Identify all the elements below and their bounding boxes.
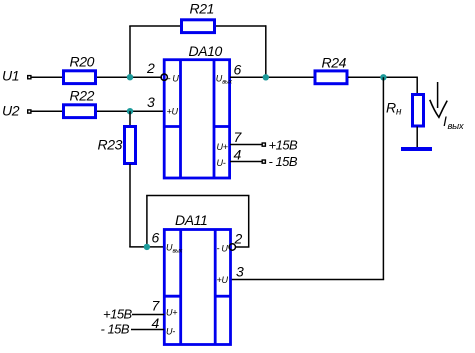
svg-text:I: I <box>443 113 447 129</box>
svg-text:U-: U- <box>217 158 226 168</box>
wire Rn to ground <box>416 127 418 148</box>
svg-text:R21: R21 <box>190 1 214 17</box>
wire DA10 pin 4 to -15V terminal <box>230 161 262 163</box>
svg-text:- U: - U <box>217 244 229 254</box>
svg-text:DA10: DA10 <box>189 43 223 59</box>
resistor R24 <box>315 55 347 84</box>
Iout label <box>443 113 465 132</box>
node junction output to load <box>380 74 386 80</box>
svg-text:+15В: +15В <box>103 307 133 322</box>
inversion circle DA10 pin 2 <box>161 74 167 80</box>
svg-text:6: 6 <box>152 230 160 246</box>
svg-text:U+: U+ <box>166 308 177 318</box>
svg-text:- 15В: - 15В <box>101 322 130 337</box>
wire corner down to Rn <box>416 77 418 94</box>
svg-text:R24: R24 <box>322 55 347 71</box>
svg-text:R23: R23 <box>98 137 123 153</box>
svg-text:- U: - U <box>168 74 180 84</box>
Uout label DA11 <box>166 243 183 255</box>
svg-text:вых: вых <box>222 79 233 85</box>
input terminal U1 <box>2 68 31 84</box>
input terminal U2 <box>2 103 31 119</box>
svg-text:6: 6 <box>234 62 242 78</box>
load resistor Rn <box>386 95 424 127</box>
resistor R21 <box>182 1 215 33</box>
resistor R22 <box>64 88 96 118</box>
svg-text:DA11: DA11 <box>175 212 207 228</box>
svg-text:R22: R22 <box>70 88 95 104</box>
resistor R23 <box>98 127 136 164</box>
svg-text:3: 3 <box>236 264 244 280</box>
wire R23 down to DA11 output node <box>129 164 164 247</box>
wire U1 terminal to R20 <box>32 76 64 78</box>
svg-text:+U: +U <box>217 275 229 285</box>
svg-text:7: 7 <box>152 298 161 314</box>
wire U2 terminal to R22 <box>32 110 64 112</box>
svg-text:7: 7 <box>234 129 243 145</box>
op-amp U2 block DA11 <box>164 212 230 345</box>
wire feedback R21 branch (node A up and over) <box>129 26 181 77</box>
svg-text:н: н <box>396 107 402 118</box>
node junction at DA10 pin 3 input <box>127 108 133 114</box>
terminal square -15V DA10 <box>262 160 265 163</box>
wire DA10 pin 7 to +15V terminal <box>230 144 262 146</box>
svg-text:U2: U2 <box>2 103 20 119</box>
svg-text:4: 4 <box>152 315 160 331</box>
svg-text:R20: R20 <box>70 54 95 70</box>
svg-text:- 15В: - 15В <box>269 154 298 169</box>
svg-text:4: 4 <box>234 147 242 163</box>
svg-text:2: 2 <box>146 60 155 76</box>
node junction DA10 output / R21 feedback <box>263 74 269 80</box>
svg-text:3: 3 <box>147 94 155 110</box>
terminal square +15V DA10 <box>262 143 265 146</box>
svg-text:вых: вых <box>173 249 184 255</box>
node junction at DA10 pin 2 input <box>127 74 133 80</box>
feedback loop wire DA11 output to pin 2 <box>146 196 249 248</box>
wire DA10 output to R24 <box>230 76 315 78</box>
ground <box>401 147 432 151</box>
svg-text:U1: U1 <box>2 68 19 84</box>
wire R21 to DA10 output node <box>216 25 266 77</box>
wire R22 to DA10 pin 3 <box>97 110 165 112</box>
svg-text:+15В: +15В <box>269 138 299 153</box>
wire +15V to DA11 pin 7 <box>132 314 164 316</box>
svg-text:U+: U+ <box>217 142 228 152</box>
wire node B down to R23 <box>129 111 131 126</box>
output current arrow Iout <box>430 82 447 117</box>
svg-text:вых: вых <box>448 121 465 132</box>
svg-text:U-: U- <box>166 327 175 337</box>
wire R20 to DA10 pin 2 <box>97 76 162 78</box>
node junction R23 / DA11 feedback <box>144 244 150 250</box>
svg-text:+U: +U <box>167 107 179 117</box>
Uout label DA10 <box>216 73 233 85</box>
svg-text:2: 2 <box>234 231 243 247</box>
inversion circle DA11 pin 2 <box>229 244 235 250</box>
op-amp U1 block DA10 <box>164 43 229 178</box>
wire output node down to DA11 pin 3 <box>231 77 384 279</box>
wire -15V to DA11 pin 4 <box>131 329 164 331</box>
resistor R20 <box>64 54 96 84</box>
svg-text:R: R <box>386 100 396 116</box>
wire R24 to output node <box>348 76 417 78</box>
